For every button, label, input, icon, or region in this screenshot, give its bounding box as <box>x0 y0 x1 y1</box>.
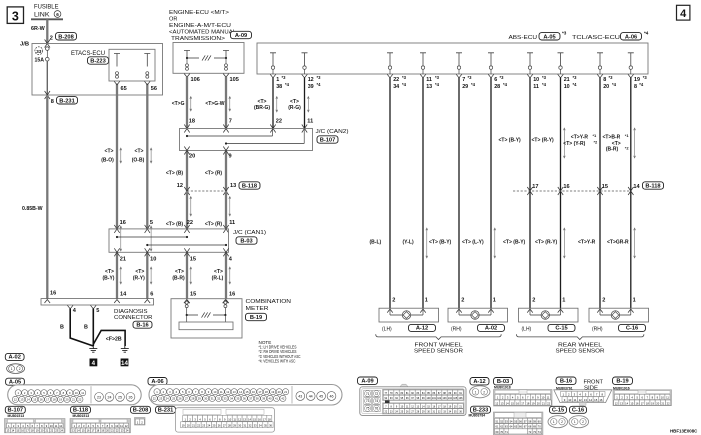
svg-text:B-223: B-223 <box>90 59 106 65</box>
in-line connector B-118 rear sensors <box>513 182 664 191</box>
svg-text:20: 20 <box>537 401 540 405</box>
svg-text:11: 11 <box>666 396 669 400</box>
front wheel speed sensor LH A-12 <box>379 297 439 332</box>
connector view A-12 <box>470 378 490 398</box>
pin label 5 <box>150 220 153 226</box>
svg-text:<T>: <T> <box>135 148 144 154</box>
svg-text:20: 20 <box>603 84 609 90</box>
ETACS-ECU label <box>71 50 109 65</box>
svg-text:<T> (B-Y): <T> (B-Y) <box>503 240 526 246</box>
wire ETACS 56 to J/C CAN1 pin 5 <box>145 81 151 233</box>
svg-text:39: 39 <box>262 397 265 401</box>
svg-text:MU801513: MU801513 <box>8 414 25 418</box>
svg-text:28: 28 <box>191 397 194 401</box>
svg-text:15: 15 <box>190 257 196 263</box>
svg-text:REAR WHEEL: REAR WHEEL <box>558 342 602 348</box>
svg-text:6: 6 <box>494 77 497 83</box>
CAN termination inside engine ECU <box>184 51 229 71</box>
ABS-ECU pin 11*3 13*4 <box>420 53 440 90</box>
svg-text:8: 8 <box>51 99 54 105</box>
svg-text:12: 12 <box>615 401 618 405</box>
svg-text:2: 2 <box>483 390 485 394</box>
svg-text:2: 2 <box>461 297 464 303</box>
svg-text:15: 15 <box>190 292 196 298</box>
svg-text:15: 15 <box>511 401 514 405</box>
svg-text:15: 15 <box>630 401 633 405</box>
wire T R-Y rear LH <box>532 78 570 313</box>
svg-text:23: 23 <box>159 397 162 401</box>
rear wheel speed sensor bracket <box>516 334 643 354</box>
svg-text:19: 19 <box>59 398 62 402</box>
svg-text:*4: *4 <box>573 82 578 87</box>
svg-text:*4: VEHICLES WITH ASC: *4: VEHICLES WITH ASC <box>259 358 296 363</box>
svg-text:J/C (CAN1): J/C (CAN1) <box>233 230 266 236</box>
svg-text:2: 2 <box>392 297 395 303</box>
svg-text:(Y-L): (Y-L) <box>403 240 414 246</box>
connector view B-118 <box>70 406 131 433</box>
svg-text:ENGINE-ECU <M/T>: ENGINE-ECU <M/T> <box>169 10 229 16</box>
svg-text:25: 25 <box>118 395 122 399</box>
svg-text:40: 40 <box>269 397 272 401</box>
svg-text:7: 7 <box>462 77 465 83</box>
wire T GR-R rear RH <box>603 78 641 313</box>
svg-text:*4: *4 <box>639 82 644 87</box>
svg-text:26: 26 <box>129 395 133 399</box>
svg-text:6: 6 <box>150 292 153 298</box>
svg-text:(RH): (RH) <box>592 326 603 332</box>
svg-text:*3: *3 <box>317 75 322 80</box>
svg-text:101: 101 <box>432 397 437 400</box>
fusible link bus bar <box>31 18 63 20</box>
svg-text:10: 10 <box>568 398 572 402</box>
svg-text:34: 34 <box>230 397 233 401</box>
svg-text:(B-Y): (B-Y) <box>103 276 115 282</box>
svg-text:(B-O): (B-O) <box>101 157 114 163</box>
svg-text:33: 33 <box>224 397 227 401</box>
wire B-118 pin 12 to J/C CAN1 pin 22 <box>166 191 193 233</box>
svg-text:22: 22 <box>393 77 399 83</box>
svg-text:11: 11 <box>229 220 235 226</box>
svg-text:<T> (B-Y): <T> (B-Y) <box>429 240 452 246</box>
svg-text:21: 21 <box>542 401 545 405</box>
svg-text:<AUTOMATED MANUAL: <AUTOMATED MANUAL <box>169 29 236 35</box>
fuse 33 15A <box>35 47 50 64</box>
svg-text:18: 18 <box>526 401 529 405</box>
svg-text:*4: *4 <box>471 82 476 87</box>
svg-text:<T>: <T> <box>105 269 114 275</box>
svg-text:18: 18 <box>646 401 649 405</box>
meter internal circuit <box>179 300 233 330</box>
pin label 16 <box>120 220 126 226</box>
svg-text:2: 2 <box>582 420 584 424</box>
joint connector J/C CAN2 B-107 <box>180 129 349 151</box>
svg-text:*4: *4 <box>317 82 322 87</box>
svg-text:*4: *4 <box>612 82 617 87</box>
svg-text:6: 6 <box>56 12 59 17</box>
svg-text:2: 2 <box>50 36 53 42</box>
svg-text:65: 65 <box>121 86 127 92</box>
svg-text:39: 39 <box>308 84 314 90</box>
svg-text:8: 8 <box>603 77 606 83</box>
svg-text:73: 73 <box>366 399 370 403</box>
svg-text:0.85B-W: 0.85B-W <box>22 206 43 212</box>
svg-text:17: 17 <box>641 401 644 405</box>
svg-text:<T> (B-Y): <T> (B-Y) <box>499 138 522 144</box>
connector view B-03 <box>494 378 553 407</box>
wire T B-Y rear LH <box>499 78 539 313</box>
svg-text:OR: OR <box>169 17 177 23</box>
svg-text:10: 10 <box>533 77 539 83</box>
svg-text:<T> (R-Y): <T> (R-Y) <box>532 138 555 144</box>
svg-text:*4: *4 <box>542 82 547 87</box>
pin label 16 diagnosis <box>50 291 56 297</box>
svg-text:102: 102 <box>437 397 442 400</box>
svg-text:18: 18 <box>189 119 195 125</box>
svg-text:30: 30 <box>204 397 207 401</box>
svg-text:(B-L): (B-L) <box>370 240 382 246</box>
svg-text:C-15: C-15 <box>552 408 564 414</box>
svg-text:(B-R): (B-R) <box>606 147 619 153</box>
wire Y-L front LH <box>403 78 428 313</box>
svg-text:*3: *3 <box>402 75 407 80</box>
svg-text:36: 36 <box>243 397 246 401</box>
wire B-L front LH <box>370 78 393 313</box>
svg-text:<T>B-R: <T>B-R <box>603 135 621 141</box>
svg-text:<F>2B: <F>2B <box>106 336 122 342</box>
rear wheel speed sensor LH C-15 <box>519 297 579 332</box>
svg-text:27: 27 <box>185 397 188 401</box>
svg-text:DIAGNOSIS: DIAGNOSIS <box>114 309 148 315</box>
svg-text:<T> (R): <T> (R) <box>205 171 223 177</box>
svg-text:56: 56 <box>151 86 157 92</box>
svg-text:(LH): (LH) <box>382 326 392 332</box>
wire T G to J/C CAN2 pin 18 <box>172 77 195 133</box>
svg-text:10: 10 <box>564 84 570 90</box>
wire B-118 pin 13 to J/C CAN1 pin 11 <box>205 191 235 233</box>
svg-text:<T> (Y-R): <T> (Y-R) <box>563 141 585 147</box>
svg-text:(O-B): (O-B) <box>132 157 145 163</box>
svg-text:B-16: B-16 <box>136 323 148 329</box>
svg-text:23: 23 <box>97 395 101 399</box>
svg-text:*3: *3 <box>562 31 567 36</box>
svg-text:A-12: A-12 <box>473 379 485 385</box>
svg-text:FRONT WHEEL: FRONT WHEEL <box>415 342 463 348</box>
svg-text:14: 14 <box>239 390 242 394</box>
svg-text:5: 5 <box>150 220 153 226</box>
svg-text:ETACS-ECU: ETACS-ECU <box>71 50 105 57</box>
wire T BR-G to J/C CAN2 pin 22 <box>254 78 282 133</box>
svg-text:13: 13 <box>584 398 588 402</box>
svg-text:17: 17 <box>532 184 538 190</box>
wire T Y-R rear RH <box>563 78 608 313</box>
diagnosis connector box B-16 <box>41 299 154 329</box>
svg-text:*4: *4 <box>402 82 407 87</box>
svg-text:B-107: B-107 <box>320 138 336 144</box>
svg-text:*3: *3 <box>542 75 547 80</box>
svg-text:17: 17 <box>46 398 49 402</box>
svg-text:10: 10 <box>213 390 216 394</box>
svg-text:(R-L): (R-L) <box>212 276 224 282</box>
svg-text:106: 106 <box>459 397 464 400</box>
svg-text:41: 41 <box>275 397 278 401</box>
svg-text:100: 100 <box>427 397 432 400</box>
svg-text:*3: *3 <box>468 75 473 80</box>
svg-text:20: 20 <box>66 398 69 402</box>
svg-text:12: 12 <box>14 398 17 402</box>
svg-text:(BR-G): (BR-G) <box>254 105 270 111</box>
connector B-231 pin 8 <box>45 91 78 105</box>
svg-text:<T>G: <T>G <box>172 101 185 107</box>
connector view B-19 <box>613 377 672 406</box>
svg-text:22: 22 <box>547 401 550 405</box>
connector view C-15 <box>548 406 568 427</box>
diagnosis pin 5 ground wire B <box>84 305 99 346</box>
svg-text:C-16: C-16 <box>626 326 638 332</box>
svg-text:TCL/ASC-ECU: TCL/ASC-ECU <box>572 35 620 41</box>
svg-text:19: 19 <box>651 401 654 405</box>
svg-text:103: 103 <box>443 397 448 400</box>
svg-text:19: 19 <box>271 390 274 394</box>
svg-text:14: 14 <box>625 401 628 405</box>
svg-text:29: 29 <box>462 84 468 90</box>
svg-text:<T>: <T> <box>135 269 144 275</box>
ENGINE-ECU box A-09 <box>173 43 244 74</box>
connector view A-02 <box>5 353 24 373</box>
svg-text:A-05: A-05 <box>543 34 555 40</box>
svg-text:CONNECTOR: CONNECTOR <box>114 315 153 321</box>
svg-text:12: 12 <box>308 77 314 83</box>
svg-text:15A: 15A <box>35 58 45 64</box>
svg-text:1: 1 <box>11 367 13 371</box>
svg-text:16: 16 <box>120 220 126 226</box>
connector view B-107 <box>5 406 66 433</box>
svg-text:37: 37 <box>249 397 252 401</box>
svg-text:2: 2 <box>602 297 605 303</box>
svg-text:LINK: LINK <box>34 11 50 18</box>
svg-text:<T>Y-R: <T>Y-R <box>578 240 596 246</box>
engine ECU pin 105 <box>223 74 239 83</box>
svg-text:B-03: B-03 <box>240 239 252 245</box>
svg-text:12: 12 <box>226 390 229 394</box>
svg-text:MU801513: MU801513 <box>73 414 90 418</box>
front wheel speed sensor bracket <box>376 334 502 354</box>
svg-text:11: 11 <box>533 84 539 90</box>
svg-text:B-03: B-03 <box>497 379 509 385</box>
svg-text:104: 104 <box>448 397 453 400</box>
wire T L-Y front RH <box>462 78 496 313</box>
wire J/C CAN1 pin 10 color (R-Y) <box>133 248 157 303</box>
svg-text:12: 12 <box>579 398 583 402</box>
svg-text:21: 21 <box>72 398 75 402</box>
svg-text:B-118: B-118 <box>645 184 660 190</box>
svg-text:B: B <box>84 324 88 330</box>
svg-text:*3: *3 <box>282 75 287 80</box>
svg-text:MU803784: MU803784 <box>469 414 486 418</box>
svg-text:7: 7 <box>229 119 232 125</box>
svg-text:15: 15 <box>594 398 598 402</box>
svg-text:MU801918: MU801918 <box>494 386 511 390</box>
wire J/C CAN1 pin 4 color (R-L) <box>212 248 236 303</box>
svg-text:11: 11 <box>574 398 577 402</box>
svg-text:43: 43 <box>298 395 302 399</box>
connector view C-16 <box>569 406 589 427</box>
svg-text:SPEED SENSOR: SPEED SENSOR <box>414 349 463 355</box>
svg-text:14: 14 <box>589 398 593 402</box>
svg-text:34: 34 <box>393 84 399 90</box>
svg-text:13: 13 <box>620 401 623 405</box>
wire T R-G to J/C CAN2 pin 11 <box>288 78 313 133</box>
combination meter box B-19 <box>171 299 291 338</box>
svg-text:A-09: A-09 <box>235 33 247 39</box>
svg-text:75: 75 <box>366 407 370 411</box>
drawing number HBF13E008C <box>670 428 698 433</box>
svg-text:10: 10 <box>75 391 78 395</box>
note block <box>259 340 301 364</box>
svg-text:<T> (R-Y): <T> (R-Y) <box>535 240 558 246</box>
connector view B-16 <box>554 377 612 405</box>
connector B-208 pin 2 <box>45 33 77 48</box>
svg-text:1: 1 <box>425 297 428 303</box>
svg-text:21: 21 <box>284 390 287 394</box>
svg-text:44: 44 <box>309 395 313 399</box>
svg-text:16: 16 <box>516 401 519 405</box>
svg-text:5: 5 <box>96 308 99 314</box>
svg-text:16: 16 <box>599 398 603 402</box>
svg-text:B-231: B-231 <box>158 408 174 414</box>
connector view A-05 <box>6 378 142 405</box>
wire label T O-B <box>132 148 145 163</box>
ABS-ECU pin 19*3 8*4 <box>628 53 648 90</box>
svg-text:C-15: C-15 <box>555 326 567 332</box>
svg-text:18: 18 <box>53 398 56 402</box>
svg-text:2: 2 <box>19 367 21 371</box>
svg-text:18: 18 <box>265 390 268 394</box>
svg-text:B-19: B-19 <box>250 315 262 321</box>
svg-text:B-16: B-16 <box>560 379 572 385</box>
svg-text:(B-R): (B-R) <box>172 276 185 282</box>
svg-text:1: 1 <box>633 297 636 303</box>
svg-text:13: 13 <box>233 390 236 394</box>
page index 4 <box>677 5 690 20</box>
svg-text:16: 16 <box>229 292 235 298</box>
svg-text:14: 14 <box>27 398 30 402</box>
svg-text:(R-G): (R-G) <box>288 105 301 111</box>
svg-text:16: 16 <box>563 184 569 190</box>
svg-text:15: 15 <box>602 184 608 190</box>
svg-text:11: 11 <box>547 396 550 400</box>
svg-text:22: 22 <box>276 119 282 125</box>
svg-text:ENGINE-A-M/T-ECU: ENGINE-A-M/T-ECU <box>169 23 231 29</box>
svg-text:14: 14 <box>120 292 127 298</box>
svg-text:A-02: A-02 <box>9 355 21 361</box>
svg-text:21: 21 <box>661 401 664 405</box>
svg-text:8: 8 <box>634 84 637 90</box>
wire 6R-W <box>31 19 47 43</box>
svg-text:13: 13 <box>20 398 23 402</box>
svg-text:<T> (R): <T> (R) <box>205 222 223 228</box>
wire 0.85B-W to diagnosis connector pin 16 <box>22 95 50 303</box>
svg-text:COMBINATION: COMBINATION <box>246 299 292 305</box>
svg-text:24: 24 <box>166 397 169 401</box>
svg-text:10: 10 <box>661 396 664 400</box>
ABS-ECU pin 6*3 28*4 <box>488 53 508 90</box>
svg-text:16: 16 <box>40 398 43 402</box>
svg-text:C-16: C-16 <box>572 408 584 414</box>
wire J/C CAN1 pin 15 color (B-R) <box>172 248 196 303</box>
ground 14 <box>121 346 129 367</box>
svg-text:B: B <box>60 324 64 330</box>
svg-text:HBF13E008C: HBF13E008C <box>670 428 698 433</box>
connector view A-09 <box>358 377 467 415</box>
svg-text:B-118: B-118 <box>242 184 257 190</box>
svg-text:31: 31 <box>211 397 214 401</box>
ground jumper wire F 2B <box>93 330 125 346</box>
twist marker pair B-O lower <box>120 226 152 251</box>
svg-text:A-09: A-09 <box>361 379 373 385</box>
svg-text:22: 22 <box>153 397 156 401</box>
svg-text:14: 14 <box>506 401 509 405</box>
ABS-ECU pin 7*3 29*4 <box>456 53 476 90</box>
svg-text:15: 15 <box>246 390 249 394</box>
svg-text:10: 10 <box>541 396 544 400</box>
svg-text:4: 4 <box>92 360 96 367</box>
svg-text:METER: METER <box>246 306 269 312</box>
wire label T B-O <box>101 148 114 163</box>
svg-text:38: 38 <box>276 84 282 90</box>
svg-text:2: 2 <box>532 297 535 303</box>
svg-text:12: 12 <box>177 183 183 189</box>
svg-text:105: 105 <box>453 397 458 400</box>
svg-text:B-208: B-208 <box>133 408 149 414</box>
svg-text:22: 22 <box>187 220 193 226</box>
svg-text:<T> (B): <T> (B) <box>166 222 184 228</box>
svg-text:17: 17 <box>521 401 524 405</box>
svg-text:13: 13 <box>230 183 236 189</box>
twist marker pair B-O <box>120 148 152 163</box>
svg-text:B-107: B-107 <box>8 408 24 414</box>
svg-text:72: 72 <box>375 392 379 396</box>
svg-text:<T> (B): <T> (B) <box>166 171 184 177</box>
svg-text:45: 45 <box>319 395 323 399</box>
svg-text:35: 35 <box>236 397 239 401</box>
svg-text:*3: *3 <box>573 75 578 80</box>
svg-text:2: 2 <box>561 420 563 424</box>
ABS-ECU TCL/ASC-ECU labels <box>509 31 649 42</box>
svg-text:28: 28 <box>494 84 500 90</box>
svg-text:1: 1 <box>553 420 555 424</box>
wire T B-Y front RH <box>429 78 462 313</box>
svg-text:9: 9 <box>229 153 232 159</box>
in-line connector B-118 CAN <box>187 182 260 191</box>
svg-text:*3: *3 <box>643 75 648 80</box>
connector view B-208 <box>131 406 151 425</box>
svg-text:26: 26 <box>179 397 182 401</box>
svg-text:33: 33 <box>36 49 42 55</box>
svg-text:11: 11 <box>426 77 432 83</box>
svg-text:29: 29 <box>198 397 201 401</box>
svg-text:17: 17 <box>258 390 261 394</box>
svg-text:ABS-ECU: ABS-ECU <box>509 35 538 41</box>
svg-text:(RH): (RH) <box>451 326 462 332</box>
svg-text:B-231: B-231 <box>59 98 75 104</box>
svg-text:42: 42 <box>281 397 284 401</box>
svg-text:J/B: J/B <box>20 42 29 48</box>
ETACS-ECU box <box>109 49 155 81</box>
engine ECU pin 106 <box>184 74 200 83</box>
ABS-ECU pin 8*3 20*4 <box>597 53 617 90</box>
svg-text:11: 11 <box>81 391 84 395</box>
ENGINE-ECU label block <box>169 10 252 42</box>
